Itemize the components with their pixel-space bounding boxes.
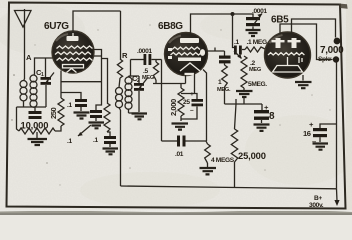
wire C1 top feed (45, 58, 47, 77)
tube V1 6U7G envelope (52, 31, 94, 73)
svg-text:B+: B+ (314, 195, 322, 202)
wire tuned circuit bottom (17, 107, 47, 131)
wire T2 primary to B- rail (120, 110, 122, 186)
tube V3 plates (272, 38, 301, 48)
tube V2 grids (171, 47, 202, 55)
coil T1 secondary (30, 74, 37, 107)
node speaker terminal top (334, 38, 341, 45)
bottom scan band (0, 211, 352, 215)
svg-text:300v.: 300v. (309, 202, 324, 209)
svg-text:.01: .01 (175, 151, 184, 158)
svg-text:–: – (312, 137, 316, 146)
ground below 4 MEGS (200, 168, 217, 174)
capacitor screen bypass (90, 110, 102, 121)
wire B+ rail right (336, 63, 338, 189)
wire V3 plate lead to speaker top (292, 19, 336, 38)
ground below trimmer (246, 30, 261, 36)
capacitor 25 mfd (181, 94, 203, 120)
svg-text:4 MEGS: 4 MEGS (211, 157, 235, 164)
tube V1 grids (55, 46, 93, 61)
svg-text:25,000: 25,000 (238, 150, 266, 161)
capacitor .0001 trimmer (246, 14, 262, 30)
wire V1 plate hook (92, 50, 102, 111)
svg-text:.1 MEG: .1 MEG (247, 39, 267, 46)
ground below screen bypass (89, 123, 105, 129)
svg-text:25: 25 (183, 99, 190, 106)
svg-text:Spkr: Spkr (318, 56, 332, 63)
potentiometer arrow (234, 51, 242, 59)
svg-text:16: 16 (303, 129, 311, 138)
ground below 2,000 (172, 124, 189, 130)
resistor 25,000 (231, 129, 237, 188)
wire grid return down (161, 60, 163, 142)
tube V2 cathode chevron (180, 63, 200, 71)
ground below volume control (236, 88, 253, 104)
resistor 2,000 cathode (153, 75, 186, 121)
ground below 8 mfd (254, 125, 270, 131)
coil T2 secondary (125, 76, 132, 113)
tube V2 plate (180, 38, 199, 43)
wire plate bus down to coupling (233, 14, 235, 48)
wire secondary top to coupling cap line (129, 60, 131, 77)
svg-text:+: + (190, 91, 194, 98)
ground below V3 cathode (295, 82, 312, 88)
tube V2 diode plates (168, 48, 172, 59)
wire V2 diode load down (195, 70, 207, 142)
capacitor 8 mfd (254, 104, 269, 123)
ground below 10,000 (28, 132, 48, 145)
svg-text:8: 8 (269, 111, 275, 122)
svg-text:.2: .2 (250, 60, 255, 67)
wire grid of V1 to coil top (35, 58, 54, 74)
ground below AVC cap (103, 149, 119, 155)
arrow to screen bypass label (78, 125, 91, 136)
resistor .5 MEG (153, 60, 158, 84)
resistor 250 (58, 71, 64, 127)
tube V3 stem (288, 57, 303, 65)
tube V2 6B8G envelope (165, 33, 208, 76)
capacitor .01 (162, 136, 207, 147)
svg-text:250: 250 (49, 107, 58, 119)
wire V3 cathode to ground (302, 75, 304, 81)
resistor 4 MEGS (205, 141, 211, 167)
tube V3 cathode trapezoid (273, 66, 303, 73)
svg-text:.0001: .0001 (252, 8, 267, 15)
wire bus to trimmer (233, 14, 254, 17)
svg-text:MEG: MEG (249, 67, 261, 73)
wire V2 diode hook (205, 48, 225, 52)
resistor 5 MEG volume control (241, 56, 247, 88)
wire screen supply bus (226, 103, 262, 105)
ground below 16 mfd (313, 144, 329, 150)
capacitor diode filter (219, 51, 231, 65)
wire 10,000 right end to cathode (55, 126, 61, 131)
resistor R (117, 11, 122, 78)
capacitor 16 mfd (313, 124, 337, 142)
svg-text:5MEG.: 5MEG. (248, 81, 267, 88)
ground below cathode bypass (74, 113, 90, 119)
tube V1 plate cap (67, 33, 79, 41)
tube V2 beam bar (178, 58, 201, 62)
capacitor C1 (variable) (41, 73, 55, 108)
svg-text:.1: .1 (67, 138, 72, 145)
resistor .1 MEG (245, 47, 266, 52)
svg-text:.1: .1 (67, 102, 72, 109)
wire 25,000 top (235, 99, 237, 129)
capacitor .1 coupling (234, 46, 245, 55)
capacitor .1 AVC (104, 132, 116, 147)
tube V2 diode dot right (200, 49, 205, 56)
frame corner smudge top-right (339, 4, 348, 9)
svg-text:6B8G: 6B8G (158, 21, 183, 32)
padder capacitor (29, 111, 42, 119)
B+ terminal arrow (334, 189, 339, 206)
tube V3 6B5 envelope (265, 32, 311, 78)
coil T1 primary (20, 79, 27, 107)
wire .1MEG to V3 grid (266, 49, 270, 51)
resistor 10,000 (19, 128, 55, 134)
tube V3 grid zigzag (268, 53, 304, 55)
capacitor .1 cathode bypass (75, 99, 87, 111)
svg-text:MEG: MEG (142, 75, 154, 81)
resistor 1 MEG (222, 65, 228, 104)
node junction dot plate bus (231, 12, 235, 16)
svg-text:.1: .1 (234, 39, 239, 46)
resistor screen dropping (104, 103, 110, 132)
capacitor C2 (variable) (131, 76, 148, 112)
capacitor .0001 coupling (131, 54, 162, 65)
svg-text:7,000: 7,000 (320, 45, 344, 56)
antenna (15, 9, 32, 79)
svg-text:2,000: 2,000 (169, 99, 178, 116)
wire V1 top cap to bus (73, 11, 121, 32)
wire V1 screen branches (102, 59, 108, 104)
node speaker terminal bottom (333, 56, 339, 62)
tube V1 cathode (63, 65, 84, 68)
wire V3 grid-plate lead to speaker bottom (280, 24, 333, 60)
coil T2 primary (116, 78, 123, 110)
wire cathode to bypass cap (61, 82, 102, 99)
svg-text:6U7G: 6U7G (44, 21, 69, 32)
svg-text:.0001: .0001 (137, 48, 152, 55)
ground below C2 (129, 113, 148, 119)
wire V2 plate to top bus (191, 14, 233, 37)
svg-text:.1: .1 (93, 137, 98, 144)
wire B- bottom rail (121, 186, 337, 189)
svg-text:.5: .5 (143, 68, 148, 75)
